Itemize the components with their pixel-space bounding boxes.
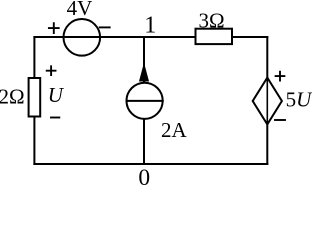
wire top right (3-ohm to corner)	[232, 36, 267, 38]
current source I1 2A circle	[127, 83, 163, 119]
svg-text:5U: 5U	[286, 88, 312, 112]
dependent source internal wire	[266, 78, 268, 125]
label 2-ohm	[0, 85, 25, 109]
wire bottom horizontal	[34, 163, 267, 165]
resistor 2-ohm body	[29, 78, 41, 117]
svg-text:U: U	[48, 83, 65, 107]
minus sign of 5U source	[275, 119, 285, 121]
svg-text:4V: 4V	[67, 0, 93, 20]
svg-text:3Ω: 3Ω	[198, 8, 224, 32]
current source arrowhead	[140, 65, 149, 82]
wire right vertical upper	[266, 37, 268, 78]
node label 1	[144, 13, 156, 39]
dependent source 5U diamond	[253, 78, 282, 125]
node 1 junction wire middle vertical upper	[143, 37, 145, 83]
node label 0	[138, 165, 150, 191]
label 5U	[286, 88, 314, 112]
plus sign of 5U source	[276, 72, 285, 81]
wire right vertical lower	[266, 125, 268, 165]
svg-text:2Ω: 2Ω	[0, 85, 25, 109]
label 4V	[67, 0, 93, 20]
svg-text:2A: 2A	[161, 118, 188, 142]
resistor 3-ohm body	[196, 29, 233, 44]
wire top horizontal (left corner through 4V source to 3-ohm resistor)	[34, 36, 195, 38]
label 2A	[161, 118, 188, 142]
plus sign of 4V source	[49, 23, 59, 33]
voltage source U1 4V circle	[64, 19, 101, 56]
wire left vertical lower	[33, 117, 35, 165]
svg-text:1: 1	[144, 13, 156, 39]
current source horizontal bar	[127, 100, 163, 102]
label 3-ohm	[198, 8, 224, 32]
wire middle vertical lower	[143, 119, 145, 164]
plus sign of U across 2-ohm	[47, 66, 56, 75]
label U voltage variable	[48, 83, 65, 107]
minus sign of U across 2-ohm	[51, 117, 59, 119]
svg-text:0: 0	[138, 165, 150, 189]
minus sign of 4V source	[100, 26, 110, 28]
wire left vertical upper	[33, 37, 35, 78]
